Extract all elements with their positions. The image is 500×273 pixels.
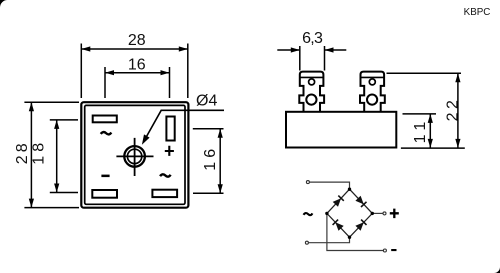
dim 6,3 witness lines [300,46,325,71]
terminal circle minus [383,249,386,252]
dim 11 line [428,114,433,148]
svg-text:22: 22 [444,97,461,122]
dim 28 left line [29,102,34,207]
package outer square [81,102,188,208]
hole crosshair [116,138,153,176]
terminal tab 1 [299,72,324,113]
symbol ~ bottom-right [160,174,171,176]
dim 28 left text [14,140,31,164]
svg-text:KBPC: KBPC [464,7,491,18]
mounting hole outer circle [124,146,145,167]
svg-text:16: 16 [128,56,146,73]
svg-text:16: 16 [202,145,219,171]
terminal circle AC top [306,181,309,184]
label ~ schematic [304,213,313,215]
dim 16 top line [105,70,170,75]
wire AC bottom [307,237,349,243]
mounting hole inner circle [127,149,141,163]
dim diameter 4 leader [142,110,224,144]
dim 28 top text [128,32,146,49]
dim 28 top line [81,46,188,51]
dim 28 top witness lines [81,44,188,99]
symbol ~ top-left [101,132,112,134]
node right [371,212,374,215]
dim 16 right text [202,145,219,171]
dim 6,3 text [302,30,323,47]
bridge diamond [327,189,372,237]
diode D4 bottom-right [355,220,366,231]
package inner square [85,105,185,204]
dim 22 line [455,73,460,148]
diode D1 top-left [333,196,344,207]
dim 6,3 line [277,47,346,52]
dim 16 top text [128,56,146,73]
dim 16 top witness lines [105,67,170,98]
wire minus [327,213,385,250]
terminal circle plus [383,212,386,215]
pad bottom-right [152,190,177,197]
dim 11 witness lines [401,114,465,148]
svg-text:Ø4: Ø4 [196,92,217,109]
svg-text:6,3: 6,3 [302,30,323,47]
label minus schematic [391,249,396,251]
dim 18 left text [31,139,48,165]
dim diameter 4 text [196,92,217,109]
pad right vertical [166,117,174,141]
pad bottom-left [92,190,117,198]
wire plus [372,212,384,214]
dim 22 witness line [387,72,462,74]
label + schematic [390,209,399,219]
dim 16 right witness lines [193,129,224,194]
node top [348,188,351,191]
diode D2 top-right [355,196,366,207]
terminal circle AC bottom [305,241,308,244]
svg-text:18: 18 [31,139,48,165]
pad top-left [93,116,117,123]
dim 16 right line [218,129,223,194]
dim 11 text [412,117,429,144]
diode D3 bottom-left [333,220,344,231]
svg-text:28: 28 [128,32,146,49]
node bottom [348,236,351,239]
node left [325,212,328,215]
terminal tab 2 [360,72,385,113]
svg-text:11: 11 [412,117,429,144]
symbol + right [165,146,174,156]
symbol minus left [101,175,109,178]
dim 22 text [444,97,461,122]
wire AC top [308,182,350,189]
package body side view [286,112,396,148]
label KBPC [464,7,491,18]
dim 28 left witness lines [24,102,79,207]
svg-text:28: 28 [14,140,31,164]
dim 18 left witness lines [50,120,78,193]
dim 18 left line [54,120,59,193]
